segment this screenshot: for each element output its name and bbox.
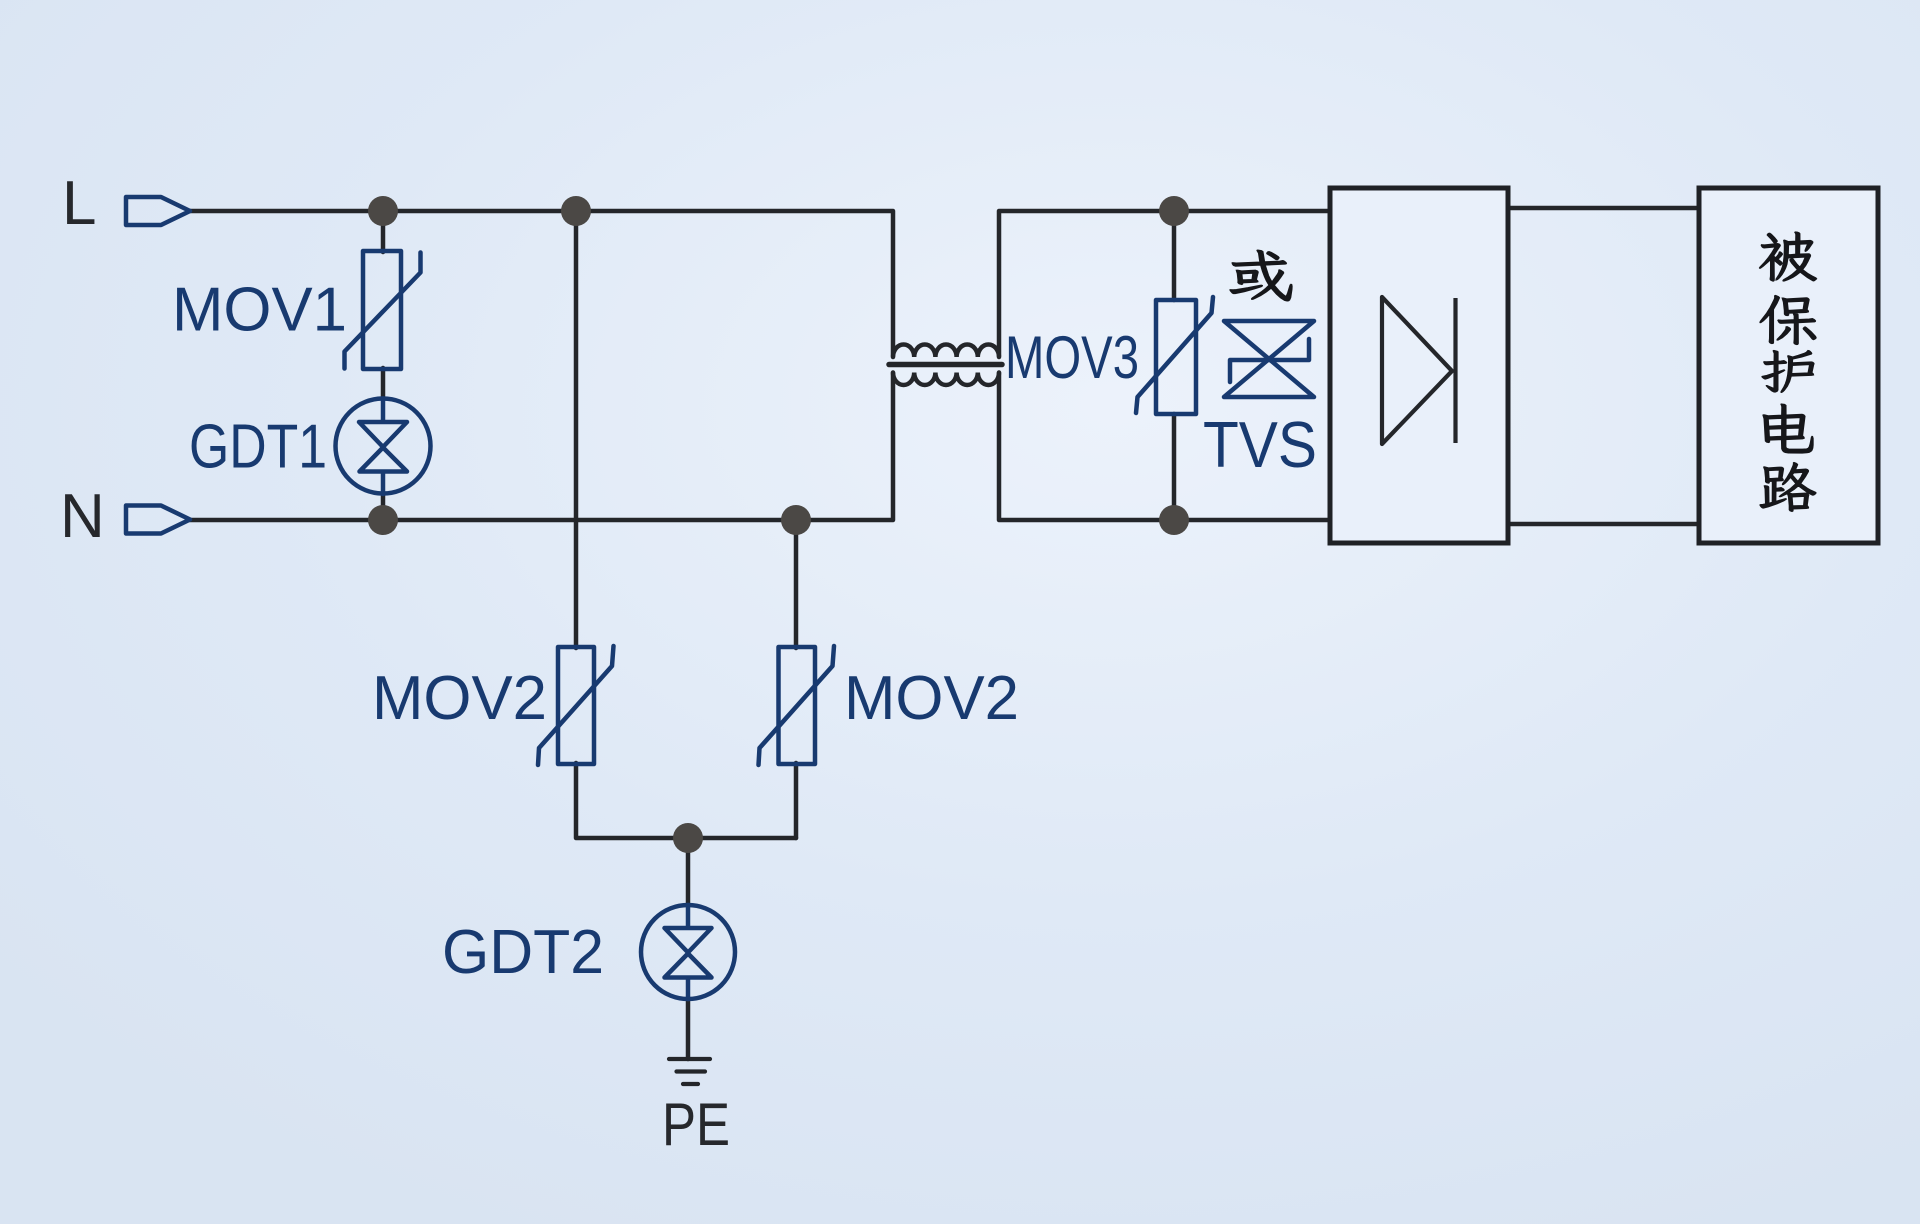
svg-text:GDT2: GDT2 <box>442 918 604 987</box>
svg-text:L: L <box>62 169 96 238</box>
svg-text:TVS: TVS <box>1203 408 1317 481</box>
svg-text:MOV1: MOV1 <box>172 276 347 345</box>
svg-text:MOV3: MOV3 <box>1005 324 1139 391</box>
svg-text:MOV2: MOV2 <box>372 664 547 733</box>
svg-text:N: N <box>60 482 105 551</box>
svg-text:GDT1: GDT1 <box>189 413 327 482</box>
svg-text:PE: PE <box>662 1091 730 1158</box>
svg-text:MOV2: MOV2 <box>844 664 1019 733</box>
